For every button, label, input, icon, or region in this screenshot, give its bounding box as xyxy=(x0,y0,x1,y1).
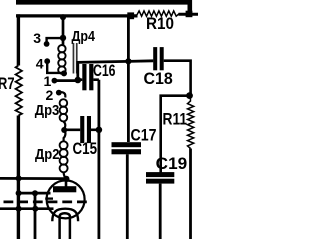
node junction square right of R10 xyxy=(186,11,193,18)
wire pin 1 lead xyxy=(54,79,77,82)
wire anode lead xyxy=(65,179,68,187)
tube cathode arch xyxy=(52,209,78,222)
wire left frame vertical upper xyxy=(17,14,20,65)
svg-text:C19: C19 xyxy=(156,155,188,173)
inductor Dr2 coil xyxy=(60,141,68,149)
svg-text:C17: C17 xyxy=(131,126,157,144)
svg-text:4: 4 xyxy=(36,56,44,72)
capacitor C18 plates xyxy=(153,47,157,70)
capacitor C15 lead in xyxy=(64,129,80,132)
node junction square left of R10 xyxy=(127,12,134,19)
capacitor C18 lead out and corner down xyxy=(164,61,191,96)
wire Dr2 exit to anode node xyxy=(64,172,66,178)
capacitor C15 lead out xyxy=(91,129,99,132)
pin 2 terminal dot xyxy=(56,90,62,96)
wire left frame vertical lower xyxy=(17,116,20,240)
node dot Dr3 bottom / C15 tap xyxy=(61,127,67,133)
svg-text:R7: R7 xyxy=(0,75,15,93)
resistor R7 xyxy=(16,66,22,116)
svg-text:C16: C16 xyxy=(93,62,116,80)
node dot Dr4 coil bottom xyxy=(61,70,67,76)
wire top thick horizontal with right corner down xyxy=(16,2,190,13)
inductor Dr3 coil xyxy=(60,99,68,107)
wire B cathode lead xyxy=(0,207,54,210)
node dot C15 to x99 xyxy=(96,127,103,134)
capacitor C16 lead in xyxy=(78,78,83,81)
wire R11 bottom lead xyxy=(189,149,192,240)
tube heater xyxy=(60,213,70,239)
wire C16 corner up and across to C18 xyxy=(78,61,154,80)
node dot x36 y192 xyxy=(32,190,38,196)
svg-text:R11: R11 xyxy=(163,110,188,128)
svg-text:Др2: Др2 xyxy=(35,146,60,163)
tube envelope xyxy=(47,180,85,218)
node dot pin3 corner xyxy=(60,35,66,41)
node dot x36 y207 xyxy=(32,206,38,212)
node dot frame y192 xyxy=(16,190,22,196)
wire Dr2 entry xyxy=(64,130,66,141)
svg-text:Др3: Др3 xyxy=(35,102,60,119)
tube anode bar xyxy=(53,186,76,192)
capacitor C15 plates xyxy=(80,116,84,143)
node dot frame y207 xyxy=(16,206,22,212)
wire Dr3 exit xyxy=(63,121,65,128)
node dot x129 y61 xyxy=(125,58,131,64)
node dot anode junction xyxy=(63,176,69,182)
tube screen stub xyxy=(45,197,53,199)
svg-text:C18: C18 xyxy=(144,70,173,88)
capacitor C16 lead out xyxy=(93,78,99,81)
svg-text:2: 2 xyxy=(46,87,54,103)
wire A screen lead xyxy=(17,192,51,195)
node dot frame y178 xyxy=(16,175,22,181)
wire vertical x129 from R10 left xyxy=(127,16,130,142)
tube grid dashed xyxy=(4,201,88,204)
wire y95 to C19 column xyxy=(161,96,190,173)
node dot top of Dr4 column xyxy=(60,14,66,20)
pin 3 terminal dot xyxy=(44,41,50,47)
wire second horizontal right of R10 xyxy=(179,13,199,16)
wire y178 from left edge xyxy=(0,177,64,180)
svg-text:R10: R10 xyxy=(146,15,174,33)
capacitor C16 plates xyxy=(82,64,86,90)
inductor Dr4 coil xyxy=(58,45,65,52)
wire pin 4 lead xyxy=(47,61,63,73)
wire C17 bottom lead xyxy=(126,154,129,239)
resistor R10 xyxy=(134,11,180,16)
wire vertical into Dr4 xyxy=(62,16,65,46)
Dr4 core bars xyxy=(73,43,75,74)
wire second horizontal left of R10 xyxy=(16,14,138,17)
wire vertical x99 down xyxy=(98,80,101,239)
capacitor C19 plates xyxy=(146,172,174,177)
wire vertical x36 xyxy=(34,193,37,239)
resistor R11 xyxy=(188,96,194,149)
node dot C16 input xyxy=(75,77,82,84)
svg-text:Др4: Др4 xyxy=(72,28,96,45)
svg-text:3: 3 xyxy=(33,30,41,46)
capacitor C17 plates xyxy=(112,142,142,147)
wire C19 bottom lead xyxy=(159,184,162,239)
pin 1 terminal dot xyxy=(52,78,58,84)
wire pin 2 into Dr3 xyxy=(60,92,65,97)
wire pin 3 lead xyxy=(47,38,63,43)
node dot R11 top xyxy=(186,92,193,99)
svg-text:C15: C15 xyxy=(73,140,98,158)
pin 4 terminal dot xyxy=(44,58,50,64)
